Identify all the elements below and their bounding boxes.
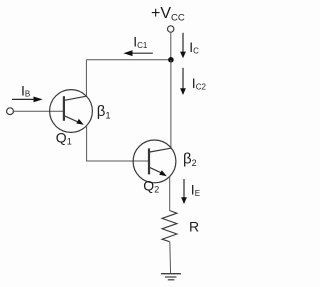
terminal +VCC	[168, 26, 174, 32]
wire Q2 emitter to resistor	[169, 177, 171, 211]
arrow IC	[180, 33, 186, 59]
resistor R	[162, 211, 177, 242]
arrow IC2	[180, 68, 186, 95]
wire VCC terminal to junction	[170, 32, 172, 59]
wire base input to Q1	[14, 110, 64, 112]
arrow IB	[12, 97, 43, 103]
wire resistor to ground	[169, 242, 172, 274]
transistor Q2	[133, 140, 176, 183]
node collector junction	[168, 57, 174, 63]
wire Q1 collector riser	[85, 60, 87, 96]
ground	[161, 274, 181, 280]
arrow IC1	[123, 50, 153, 56]
wire Q1 emitter to Q2 base	[87, 126, 149, 161]
svg-text:R: R	[189, 219, 199, 235]
transistor Q1	[50, 90, 93, 133]
wire top rail	[86, 59, 170, 61]
arrow IE	[181, 179, 187, 204]
wire rail junction to Q2 collector	[170, 60, 172, 148]
input terminal	[7, 108, 14, 115]
